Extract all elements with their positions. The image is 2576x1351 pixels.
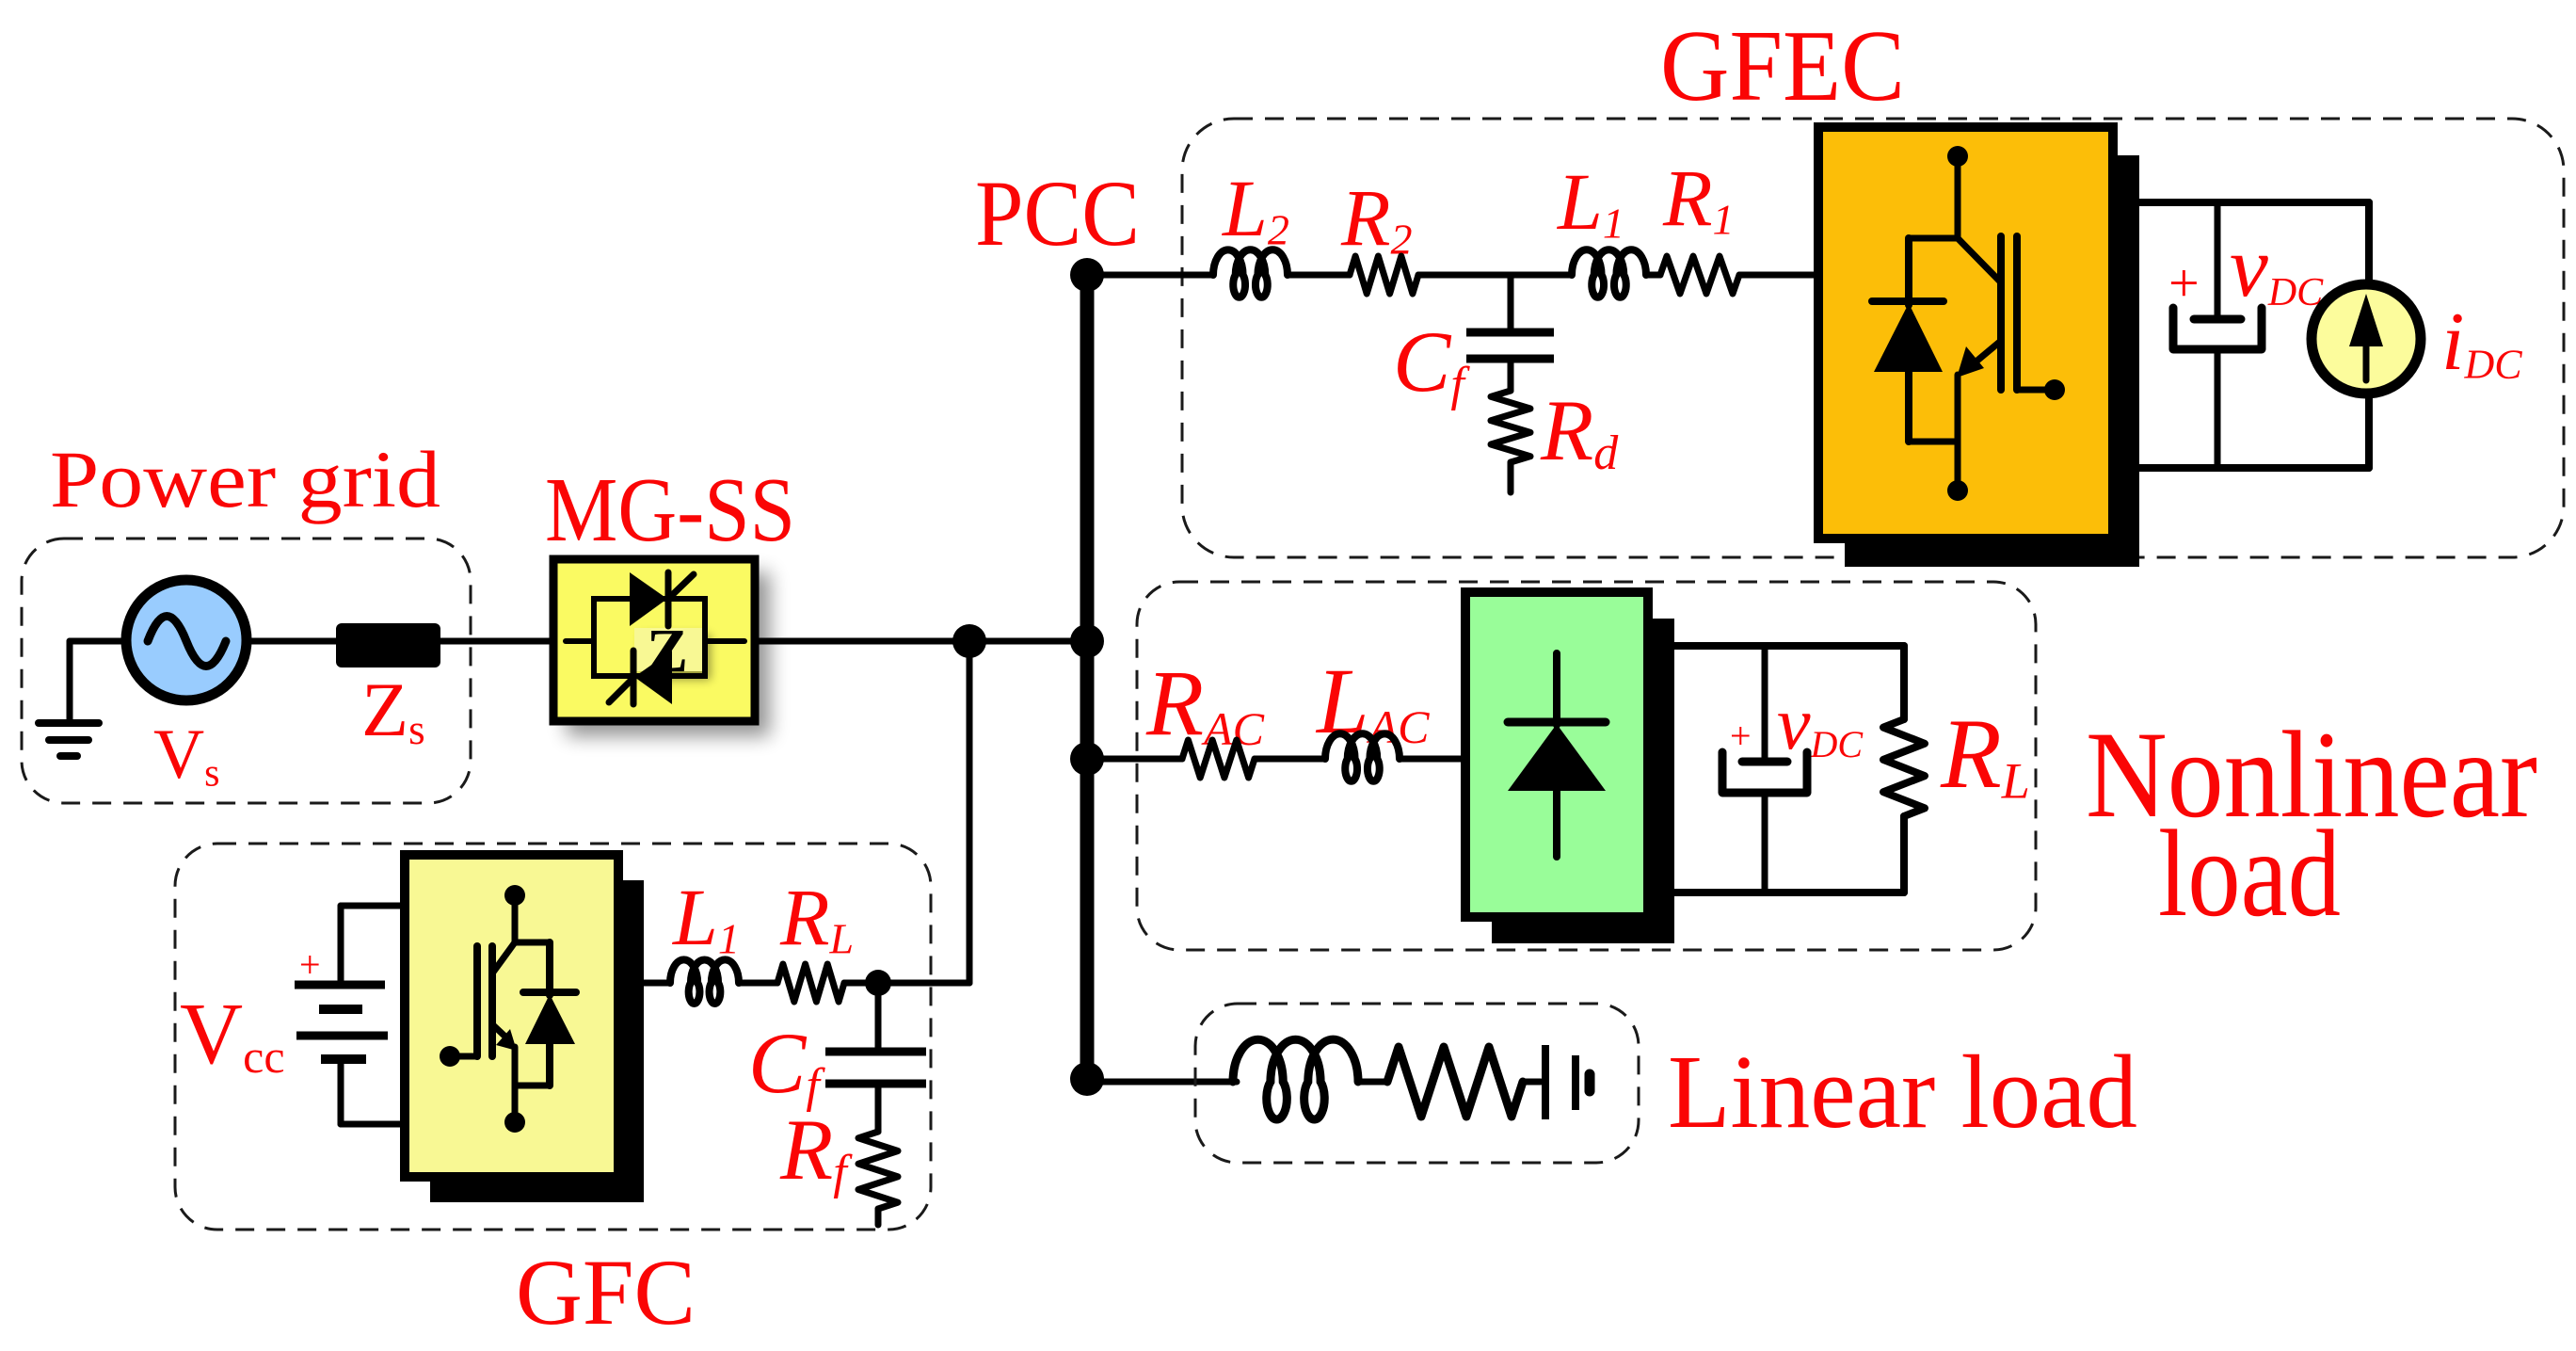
svg-text:+: + xyxy=(299,943,321,986)
capacitor Cf (GFC) xyxy=(825,983,926,1132)
igbt body bar (GFC) xyxy=(488,946,496,1056)
diode (GFC, antiparallel) xyxy=(515,942,576,1086)
dashed box: Power grid section xyxy=(22,539,471,803)
diode (GFEC, antiparallel) xyxy=(1872,238,1944,442)
thyristor top (forward) xyxy=(630,572,694,626)
GFEC box shadow xyxy=(1845,155,2139,567)
wire: GFEC dc bottom xyxy=(2139,395,2369,468)
wire: diode bottom link (GFEC) xyxy=(1909,439,1958,445)
wire: diode top link (GFEC) xyxy=(1909,235,1958,242)
label: iDC xyxy=(2441,297,2522,388)
capacitor vDC (GFEC dc link) xyxy=(2173,202,2262,468)
label: RAC xyxy=(1145,651,1265,755)
label: L1 (GFEC) xyxy=(1556,156,1624,247)
wire: diode top link (GFC) xyxy=(515,940,550,946)
wire: MG-SS inner right stub xyxy=(705,638,744,644)
battery plate 2 (linear load) xyxy=(1572,1055,1579,1110)
igbt body bar (GFEC) xyxy=(1997,236,2005,390)
wire: L1 to RL (GFC) xyxy=(739,980,777,987)
converter GFC box xyxy=(405,855,618,1177)
label: Z impedance xyxy=(647,617,688,685)
wire: Vs left lead xyxy=(70,641,126,723)
igbt gate lead (GFC) xyxy=(440,1046,477,1067)
wire: bus to linear load xyxy=(1087,1079,1237,1086)
label: RL (nonlinear) xyxy=(1940,699,2030,810)
wire: R1 to GFEC box xyxy=(1739,272,1818,279)
label: Linear load xyxy=(1668,1035,2137,1150)
capacitor vDC (nonlinear) xyxy=(1722,646,1807,893)
label: GFEC xyxy=(1660,10,1905,122)
resistor RL (nonlinear) xyxy=(1883,719,1925,816)
label: Rd xyxy=(1540,382,1619,480)
wire: Vcc top lead xyxy=(341,906,408,985)
inductor (linear load) xyxy=(1233,1039,1358,1119)
resistor (linear load) xyxy=(1387,1047,1523,1117)
svg-text:load: load xyxy=(2158,804,2341,942)
wire: R2 to L1 with Cf tap xyxy=(1418,272,1572,279)
node: PCC top xyxy=(1070,258,1104,292)
wire: bus to RAC xyxy=(1087,756,1182,763)
igbt collector lead (GFEC) xyxy=(1958,238,2001,282)
inductor L1 (GFC) xyxy=(670,959,739,1004)
resistor R1 xyxy=(1660,256,1739,294)
wire: rectifier dc top xyxy=(1674,646,1904,719)
igbt gate lead (GFEC) xyxy=(2017,379,2065,400)
wire: GFC box to L1 xyxy=(618,980,670,987)
current source iDC circle xyxy=(2312,284,2421,394)
label: PCC xyxy=(975,161,1140,265)
impedance Zs block xyxy=(336,623,440,667)
label: L2 xyxy=(1221,163,1289,253)
Z tile xyxy=(634,628,702,671)
wire: PCC bus xyxy=(1080,275,1095,1079)
wire: GFC riser to PCC wire xyxy=(967,641,973,983)
label: Zs xyxy=(361,667,425,753)
Z tile shadow xyxy=(641,635,711,680)
label: Cf xyxy=(1393,314,1470,411)
igbt emitter lead with arrow (GFEC) xyxy=(1957,341,2001,378)
label: Vs xyxy=(153,716,220,795)
wire: rectifier dc bottom xyxy=(1674,816,1904,893)
wire: linear coil to resistor xyxy=(1358,1079,1387,1086)
resistor RAC xyxy=(1182,740,1255,778)
diode (nonlinear rectifier) xyxy=(1508,653,1606,857)
svg-text:GFC: GFC xyxy=(516,1240,696,1344)
label: Vcc xyxy=(180,986,285,1083)
resistor Rf xyxy=(858,1132,898,1225)
label: R1 xyxy=(1662,153,1735,243)
label: LAC xyxy=(1315,649,1430,753)
label: MG-SS xyxy=(545,459,795,560)
inductor L1 (GFEC) xyxy=(1572,249,1646,297)
label: L1 (GFC) xyxy=(671,872,740,962)
dashed box: Linear load section xyxy=(1195,1004,1639,1163)
svg-text:+: + xyxy=(1730,715,1752,757)
resistor R2 xyxy=(1350,256,1418,294)
wire: linear load resistor lead xyxy=(1523,1079,1541,1086)
rectifier box (nonlinear load) xyxy=(1465,592,1648,917)
ac source Vs circle xyxy=(126,580,247,700)
dashed box: GFEC section xyxy=(1182,119,2564,557)
svg-text:Linear load: Linear load xyxy=(1668,1035,2137,1150)
igbt emitter terminal (GFC) xyxy=(504,1047,525,1133)
junction: bus-MGSS xyxy=(1070,624,1104,658)
junction: GFC filter tap xyxy=(865,970,891,996)
rectifier box shadow (nonlinear) xyxy=(1492,619,1674,943)
igbt collector lead (GFC) xyxy=(492,942,515,973)
battery Vcc xyxy=(295,985,388,1059)
wire: MG-SS inner left stub xyxy=(566,638,594,644)
svg-text:PCC: PCC xyxy=(975,161,1140,265)
switch MG-SS box xyxy=(553,559,755,721)
label: Nonlinear xyxy=(2086,705,2537,844)
label: + (Vcc) xyxy=(299,943,321,986)
MG-SS box shadow xyxy=(567,572,770,736)
battery plate 3 (linear load) xyxy=(1585,1074,1595,1091)
label: vDC (GFEC) xyxy=(2230,218,2324,314)
label: R2 xyxy=(1340,172,1413,263)
wire: GFEC dc top xyxy=(2139,202,2369,283)
label: + (nonlinear vdc) xyxy=(1730,715,1752,757)
igbt collector terminal (GFEC) xyxy=(1947,146,1968,238)
battery plate 1 (linear load) xyxy=(1542,1045,1549,1119)
wire: Vs to Zs xyxy=(247,638,336,645)
wire: Zs to MG-SS xyxy=(440,638,553,645)
dashed box: GFC section xyxy=(175,844,931,1230)
label: Power grid xyxy=(50,434,440,524)
dashed box: Nonlinear load section xyxy=(1137,582,2036,950)
label: + (GFEC vdc) xyxy=(2168,252,2200,314)
label: vDC (nonlinear) xyxy=(1777,683,1864,765)
current source iDC arrow xyxy=(2349,294,2383,380)
thyristor bottom (reverse) xyxy=(609,651,672,704)
wire: LAC to rectifier xyxy=(1400,756,1466,763)
ac source sine wave xyxy=(148,617,226,667)
igbt emitter terminal (GFEC) xyxy=(1947,375,1968,501)
igbt gate bar (GFC) xyxy=(473,946,481,1056)
svg-text:GFEC: GFEC xyxy=(1660,10,1905,122)
wire: RL to riser xyxy=(844,980,969,987)
junction: bus-nonlinear xyxy=(1070,742,1104,776)
wire: MG-SS to PCC bus xyxy=(755,638,1087,645)
igbt collector terminal (GFC) xyxy=(504,885,525,942)
igbt gate bar (GFEC) xyxy=(2013,236,2021,390)
igbt emitter lead with arrow (GFC) xyxy=(492,1024,517,1051)
svg-text:Power grid: Power grid xyxy=(50,434,440,524)
wire: Vcc bottom lead xyxy=(341,1059,408,1124)
label: load xyxy=(2158,804,2341,942)
svg-text:MG-SS: MG-SS xyxy=(545,459,795,560)
node: bus bottom xyxy=(1070,1062,1104,1096)
inductor LAC xyxy=(1325,733,1400,780)
inductor L2 xyxy=(1213,249,1288,297)
label: GFC xyxy=(516,1240,696,1344)
capacitor Cf (GFEC filter) xyxy=(1466,275,1554,391)
label: Rf xyxy=(779,1102,853,1199)
resistor RL (GFC) xyxy=(777,964,844,1002)
ground xyxy=(39,723,99,756)
resistor Rd xyxy=(1491,391,1530,492)
wire: L1 to R1 xyxy=(1646,272,1660,279)
label: Cf (GFC) xyxy=(748,1015,825,1113)
wire: PCC to L2 xyxy=(1087,272,1213,279)
wire: RAC to LAC xyxy=(1255,756,1325,763)
GFC box shadow xyxy=(430,880,644,1202)
wire: L2 to R2 xyxy=(1288,272,1350,279)
label: RL (GFC) xyxy=(779,872,854,962)
wire: MG-SS inner loop xyxy=(594,599,705,676)
converter GFEC box xyxy=(1818,127,2113,539)
junction: GFC tap xyxy=(952,624,986,658)
